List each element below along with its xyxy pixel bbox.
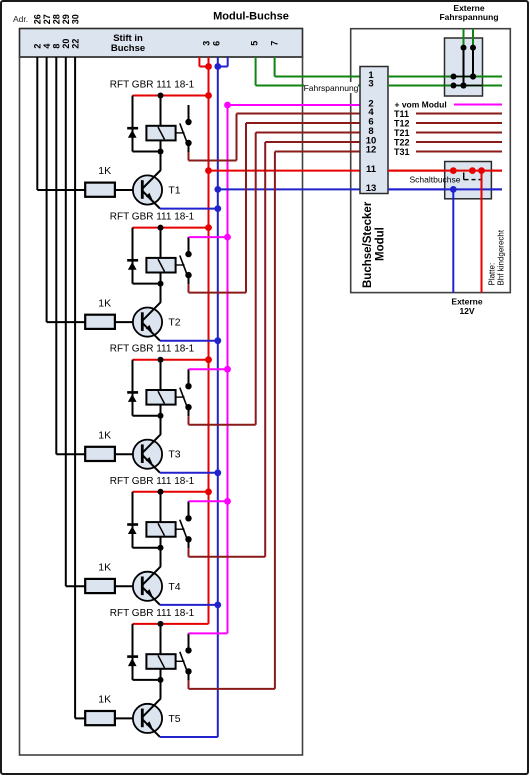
diode D5 (freewheel) xyxy=(127,655,138,666)
transistor T5 xyxy=(133,669,162,737)
resistor 1K (base of T3) xyxy=(85,447,115,461)
switch actuator link K5 xyxy=(176,660,185,662)
pin 8 label xyxy=(368,126,373,137)
svg-text:28: 28 xyxy=(52,14,62,24)
switch actuator link K2 xyxy=(176,264,185,266)
pin label 6 xyxy=(212,41,222,46)
svg-text:12V: 12V xyxy=(459,306,474,316)
wire emitter T5 to blue bus xyxy=(160,736,218,738)
relay K4 label RFT GBR 111 18-1 xyxy=(110,476,195,487)
wire switch S5 common to magenta bus xyxy=(189,633,228,650)
pin 10 label xyxy=(366,135,377,146)
pin label 5 xyxy=(250,41,260,46)
wire blue Externe 12V xyxy=(452,189,454,292)
pin 2 label xyxy=(368,98,373,109)
wire red feed to relay K3 xyxy=(133,356,212,363)
connector Schaltbuchse xyxy=(388,162,502,199)
svg-text:3: 3 xyxy=(201,41,211,46)
diode D4 (freewheel) xyxy=(127,523,138,534)
label T4 xyxy=(168,581,180,593)
node relay K5 top junction xyxy=(158,621,164,627)
wire resistor to base of T3 xyxy=(115,453,142,455)
wire red feed to relay K2 xyxy=(133,224,212,231)
svg-text:7: 7 xyxy=(269,41,279,46)
wire switch S3 common to magenta bus xyxy=(189,366,231,386)
wire resistor to base of T5 xyxy=(115,717,142,719)
label Externe 12V xyxy=(451,297,482,316)
wire magenta pin 2 line xyxy=(228,104,361,106)
wire red feed to relay K4 xyxy=(133,488,212,495)
wire emitter T4 to blue bus xyxy=(160,602,221,609)
wire green pin 3 to Externe Fahrspannung xyxy=(388,85,502,87)
wire address line 22 to base resistor xyxy=(75,57,85,718)
wire diode branch left of K1 xyxy=(133,96,161,152)
label T2 xyxy=(168,317,180,329)
svg-text:3: 3 xyxy=(368,79,373,90)
address label 27 xyxy=(42,14,52,24)
svg-text:Modul-Buchse: Modul-Buchse xyxy=(213,11,289,23)
svg-text:1K: 1K xyxy=(98,297,111,309)
node collector junction K5/T5 xyxy=(158,677,164,683)
relay contact switch S5 xyxy=(180,647,192,674)
svg-text:RFT GBR 111 18-1: RFT GBR 111 18-1 xyxy=(110,608,195,619)
wire emitter T1 to blue bus xyxy=(160,205,221,212)
net label T31 xyxy=(394,147,410,157)
connector Externe Fahrspannung xyxy=(445,29,503,96)
wire red pin 11 to Schaltbuchse xyxy=(388,170,502,172)
svg-text:RFT GBR 111 18-1: RFT GBR 111 18-1 xyxy=(110,212,195,223)
svg-text:T11: T11 xyxy=(394,109,409,119)
resistor 1K (base of T1) xyxy=(85,183,115,197)
switch actuator link K3 xyxy=(176,396,185,398)
address label 28 xyxy=(52,14,62,24)
relay coil K4 xyxy=(146,492,175,549)
wire T41 contact to connector (dark red) xyxy=(189,142,361,557)
svg-text:RFT GBR 111 18-1: RFT GBR 111 18-1 xyxy=(110,344,195,355)
pin label 2 xyxy=(33,44,43,49)
transistor T3 xyxy=(133,405,162,473)
node relay K3 top junction xyxy=(158,357,164,363)
wire green Fahrspannung pin 7 to pin 1 xyxy=(275,57,360,77)
relay contact switch S2 xyxy=(180,251,192,278)
label T1 xyxy=(168,185,180,197)
relay contact switch S4 xyxy=(180,515,192,542)
wire address line 20 to base resistor xyxy=(66,57,85,586)
svg-text:13: 13 xyxy=(366,183,377,194)
svg-text:30: 30 xyxy=(70,14,80,24)
svg-text:Fahrspannung: Fahrspannung xyxy=(304,83,359,93)
value label 1K xyxy=(98,429,111,441)
svg-text:T4: T4 xyxy=(168,581,180,593)
svg-text:RFT GBR 111 18-1: RFT GBR 111 18-1 xyxy=(110,476,195,487)
value label 1K xyxy=(98,694,111,706)
pin label 8 xyxy=(52,44,62,49)
svg-text:T31: T31 xyxy=(394,147,410,157)
relay coil K3 xyxy=(146,360,175,417)
label Externe Fahrspannung xyxy=(439,3,498,22)
svg-text:T3: T3 xyxy=(168,449,180,461)
label T5 xyxy=(168,713,180,725)
switch actuator link K4 xyxy=(176,528,185,530)
net label T22 xyxy=(394,137,410,147)
svg-text:RFT GBR 111 18-1: RFT GBR 111 18-1 xyxy=(110,80,195,91)
wire blue ground bus from pin 6 xyxy=(214,57,227,737)
node collector junction K3/T3 xyxy=(158,413,164,419)
svg-text:1K: 1K xyxy=(98,165,111,177)
wire diode branch left of K2 xyxy=(133,228,161,284)
wire address line 8 to base resistor xyxy=(56,57,85,454)
node relay K1 top junction xyxy=(158,93,164,99)
pin label 3 xyxy=(201,41,211,46)
svg-text:27: 27 xyxy=(42,14,52,24)
wire dark red T22 stub xyxy=(416,141,502,143)
wire dark red T31 stub xyxy=(416,151,502,153)
relay coil K2 xyxy=(146,228,175,285)
wire dark red T12 stub xyxy=(416,122,502,124)
node collector junction K2/T2 xyxy=(158,281,164,287)
svg-text:T12: T12 xyxy=(394,118,410,128)
wire diode branch left of K3 xyxy=(133,360,161,416)
svg-text:6: 6 xyxy=(212,41,222,46)
value label 1K xyxy=(98,165,111,177)
diode D1 (freewheel) xyxy=(127,127,138,138)
title Modul-Buchse xyxy=(213,11,289,23)
diode D3 (freewheel) xyxy=(127,391,138,402)
svg-text:T21: T21 xyxy=(394,128,410,138)
wire blue to pin 13 xyxy=(214,186,360,193)
wire switch S1 common to magenta bus xyxy=(189,102,231,122)
wire red feed to relay K1 xyxy=(133,92,212,99)
net label + vom Modul xyxy=(395,100,447,110)
svg-text:1K: 1K xyxy=(98,694,111,706)
wire T21 contact to connector (dark red) xyxy=(189,123,361,293)
transistor T2 xyxy=(133,273,162,341)
node relay K4 top junction xyxy=(158,489,164,495)
relay coil K5 xyxy=(146,624,175,681)
svg-text:T5: T5 xyxy=(168,713,180,725)
wire green Fahrspannung pin 5 to pin 3 xyxy=(256,57,360,86)
relay coil K1 xyxy=(146,96,175,153)
address label 30 xyxy=(70,14,80,24)
resistor 1K (base of T2) xyxy=(85,315,115,329)
pin 13 label xyxy=(366,183,377,194)
wire T51 contact to connector (dark red) xyxy=(189,152,361,689)
node collector junction K4/T4 xyxy=(158,545,164,551)
label Buchse/Stecker Modul (rotated) xyxy=(362,201,387,288)
svg-text:Platte:: Platte: xyxy=(488,263,497,286)
address label 29 xyxy=(61,14,71,24)
svg-text:T2: T2 xyxy=(168,317,180,329)
pin label 7 xyxy=(269,41,279,46)
pin 6 label xyxy=(368,116,373,127)
node relay K2 top junction xyxy=(158,225,164,231)
svg-text:8: 8 xyxy=(52,44,62,49)
svg-text:T1: T1 xyxy=(168,185,180,197)
wire magenta + vom Modul stub xyxy=(454,104,502,106)
wire red to pin 11 xyxy=(205,167,360,174)
wire emitter T3 to blue bus xyxy=(160,469,221,476)
svg-text:4: 4 xyxy=(42,44,52,49)
net label T11 xyxy=(394,109,409,119)
address label 26 xyxy=(33,14,43,24)
value label 1K xyxy=(98,562,111,574)
wire green pin 1 to Externe Fahrspannung xyxy=(388,76,502,78)
pin 4 label xyxy=(368,107,374,118)
wire red +12V bus from pin 3 xyxy=(199,57,212,624)
wire T31 contact to connector (dark red) xyxy=(189,133,361,425)
wire address line 4 to base resistor xyxy=(47,57,86,322)
wire blue pin 13 to Schaltbuchse xyxy=(388,188,502,190)
relay K2 label RFT GBR 111 18-1 xyxy=(110,212,195,223)
net label T12 xyxy=(394,118,410,128)
wire magenta "+ vom Modul" bus xyxy=(227,105,229,633)
label Platte: Bhf kindgerecht (rotated) xyxy=(488,229,506,285)
svg-text:Modul: Modul xyxy=(375,227,387,261)
relay contact switch S3 xyxy=(180,383,192,410)
svg-text:Schaltbuchse: Schaltbuchse xyxy=(409,174,460,184)
label Adr. xyxy=(13,14,28,24)
wire red Externe 12V xyxy=(481,171,483,293)
svg-text:5: 5 xyxy=(250,41,260,46)
relay K3 label RFT GBR 111 18-1 xyxy=(110,344,195,355)
switch actuator link K1 xyxy=(176,132,185,134)
dashed contact symbol in Schaltbuchse xyxy=(464,173,482,180)
wire resistor to base of T2 xyxy=(115,321,142,323)
relay K5 label RFT GBR 111 18-1 xyxy=(110,608,195,619)
pin 1 label xyxy=(368,70,374,81)
resistor 1K (base of T5) xyxy=(85,711,115,725)
wire diode branch left of K5 xyxy=(133,624,161,680)
svg-text:Buchse/Stecker: Buchse/Stecker xyxy=(362,201,374,288)
pin 11 label xyxy=(366,164,377,175)
wire diode branch left of K4 xyxy=(133,492,161,548)
pin label 20 xyxy=(61,39,71,49)
wire emitter T2 to blue bus xyxy=(160,337,221,344)
svg-text:Bhf kindgerecht: Bhf kindgerecht xyxy=(497,229,506,285)
svg-text:22: 22 xyxy=(70,39,80,49)
wire resistor to base of T4 xyxy=(115,585,142,587)
right section enclosure box xyxy=(351,29,511,293)
svg-text:Buchse: Buchse xyxy=(111,43,145,54)
label T3 xyxy=(168,449,180,461)
pin label 22 xyxy=(70,39,80,49)
wire switch S4 common to magenta bus xyxy=(189,498,231,518)
svg-text:T22: T22 xyxy=(394,137,410,147)
net label T21 xyxy=(394,128,410,138)
label Schaltbuchse xyxy=(409,174,460,184)
transistor T1 xyxy=(133,140,162,208)
pin label 4 xyxy=(42,44,52,49)
label Stift in Buchse xyxy=(111,33,145,54)
wire dark red T21 stub xyxy=(416,132,502,134)
svg-text:11: 11 xyxy=(366,164,377,175)
wire T11 contact to connector (dark red) xyxy=(189,114,361,161)
connector strip Buchse/Stecker Modul xyxy=(360,67,388,194)
wire switch S2 common to magenta bus xyxy=(189,234,231,254)
svg-text:1K: 1K xyxy=(98,562,111,574)
net label Fahrspannung xyxy=(304,82,359,93)
relay contact switch S1 xyxy=(180,119,192,146)
wire address line 2 to base resistor xyxy=(37,57,85,190)
wire red feed to relay K5 xyxy=(133,623,209,625)
relay K1 label RFT GBR 111 18-1 xyxy=(110,80,195,91)
connector bar Modul-Buchse (Stift in Buchse) xyxy=(20,29,303,58)
diode D2 (freewheel) xyxy=(127,259,138,270)
pin 12 label xyxy=(366,145,377,156)
svg-text:Fahrspannung: Fahrspannung xyxy=(439,12,498,22)
wire dark red T11 stub xyxy=(416,113,502,115)
svg-text:Adr.: Adr. xyxy=(13,14,28,24)
resistor 1K (base of T4) xyxy=(85,579,115,593)
pin 3 label xyxy=(368,79,373,90)
value label 1K xyxy=(98,297,111,309)
left schematic enclosure box xyxy=(20,57,303,755)
svg-text:1K: 1K xyxy=(98,429,111,441)
wire resistor to base of T1 xyxy=(115,189,142,191)
svg-text:12: 12 xyxy=(366,145,377,156)
transistor T4 xyxy=(133,537,162,605)
node collector junction K1/T1 xyxy=(158,149,164,155)
